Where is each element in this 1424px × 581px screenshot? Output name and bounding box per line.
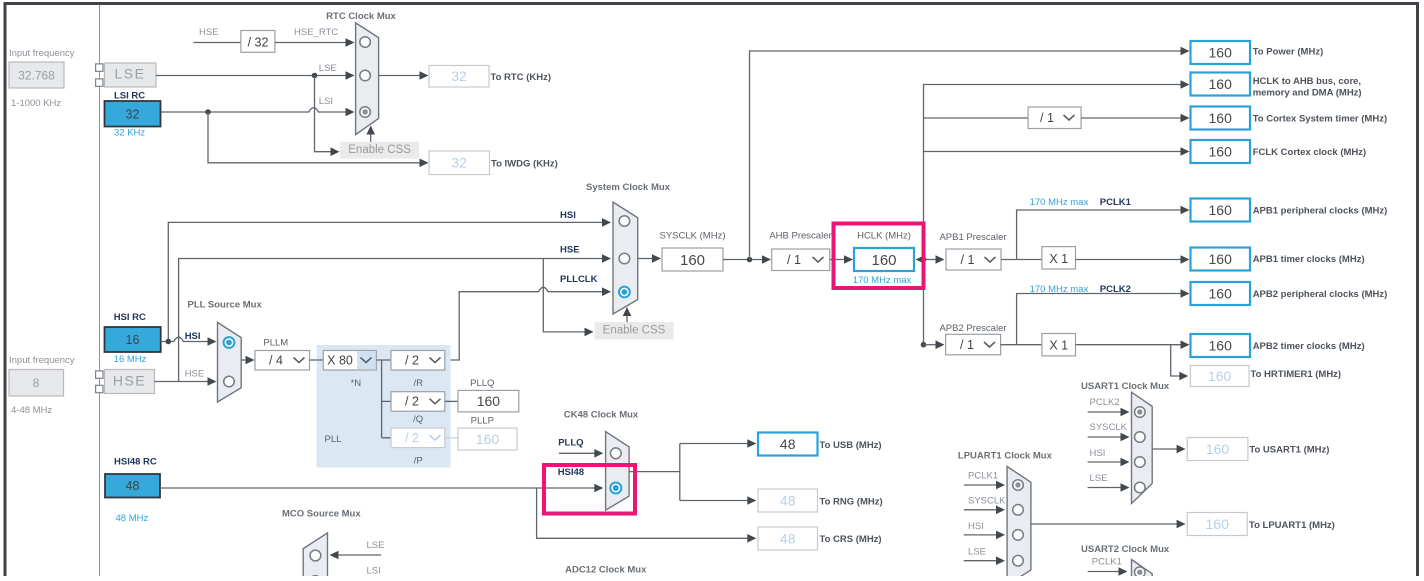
wire HCLK bus to HCLK box (left arrow): [916, 255, 925, 264]
svg-text:PLLM: PLLM: [263, 338, 288, 349]
value box To HRTIMER1 160: [1190, 366, 1249, 387]
radio HSI (unselected): [619, 216, 630, 227]
svg-text:HSI: HSI: [185, 331, 201, 342]
wire LPUART1 mux output: [1031, 520, 1186, 529]
wire HCLK bus to Cortex prescaler: [924, 117, 1029, 119]
radio MCO LSE (unselected): [310, 550, 321, 561]
wire APB2 prescaler to X1: [1001, 344, 1042, 346]
svg-text:X 1: X 1: [1049, 339, 1068, 353]
value box To Power 160: [1191, 41, 1251, 64]
input frequency box 32.768: [9, 62, 64, 88]
svg-text:To CRS (MHz): To CRS (MHz): [820, 534, 882, 545]
wire SYSCLK to To Power: [750, 47, 1190, 260]
oscillator LSE: [105, 63, 157, 87]
svg-text:SYSCLK: SYSCLK: [968, 496, 1006, 507]
svg-text:PCLK2: PCLK2: [1090, 397, 1120, 408]
Enable CSS (sys): [595, 322, 674, 339]
svg-text:48: 48: [780, 530, 796, 546]
value box To CRS 48 (inactive): [758, 527, 818, 550]
svg-text:APB1 timer clocks (MHz): APB1 timer clocks (MHz): [1253, 254, 1365, 265]
wire LSI branch to IWDG: [208, 112, 429, 167]
svg-text:48 MHz: 48 MHz: [116, 513, 149, 524]
svg-text:LSE: LSE: [1090, 473, 1108, 484]
svg-text:160: 160: [1209, 337, 1233, 353]
value box FCLK 160: [1191, 140, 1251, 163]
svg-text:To Cortex System timer (MHz): To Cortex System timer (MHz): [1253, 114, 1387, 125]
wire LSI to RTC mux with hop: [161, 108, 355, 117]
node SYSCLK junction: [747, 257, 753, 263]
svg-text:160: 160: [1209, 202, 1233, 218]
radio HSI (unselected): [1135, 457, 1146, 468]
svg-text:HSI RC: HSI RC: [114, 312, 146, 323]
svg-text:LSE: LSE: [115, 66, 146, 82]
radio HSE_RTC (unselected): [360, 37, 371, 48]
mux CK48 Clock Mux: [606, 432, 630, 511]
svg-text:/ 2: / 2: [405, 354, 419, 368]
wire HCLK bus to APB1 prescaler: [924, 255, 945, 264]
wire LSE branch to Enable CSS (rtc): [315, 76, 340, 157]
svg-text:To RNG (MHz): To RNG (MHz): [820, 497, 883, 508]
wire CK48 output tee to USB and RNG: [629, 439, 756, 505]
svg-text:PLLP: PLLP: [471, 416, 494, 427]
oscillator LSI RC 32: [105, 101, 161, 127]
svg-text:160: 160: [1208, 368, 1232, 384]
svg-text:160: 160: [476, 431, 500, 447]
oscillator HSI RC 16: [105, 327, 161, 352]
radio LSE (unselected): [1135, 482, 1146, 493]
wire PLLCLK from /R to sys mux with hop: [445, 287, 611, 360]
svg-text:HCLK to AHB bus, core,: HCLK to AHB bus, core,: [1253, 76, 1361, 87]
svg-text:X 80: X 80: [327, 354, 353, 368]
wire /P to PLLP box (inactive): [445, 437, 458, 439]
left rail line: [99, 5, 101, 576]
svg-text:memory and DMA (MHz): memory and DMA (MHz): [1253, 88, 1362, 99]
svg-text:Enable CSS: Enable CSS: [603, 324, 666, 336]
clip squares LSE: [96, 64, 103, 86]
mux System Clock Mux: [613, 202, 638, 314]
svg-text:PLLCLK: PLLCLK: [560, 274, 598, 285]
svg-text:160: 160: [1209, 143, 1233, 159]
wire HCLK bus vertical: [924, 80, 1190, 345]
svg-text:32: 32: [126, 107, 140, 121]
wire HSI to PLL mux with hop: [161, 337, 217, 346]
svg-text:/ 1: / 1: [960, 338, 974, 352]
mux MCO Source Mux (partial): [303, 533, 327, 578]
svg-text:PCLK1: PCLK1: [968, 471, 998, 482]
wire sys mux output to SYSCLK box: [638, 254, 661, 263]
svg-text:X 1: X 1: [1049, 252, 1068, 266]
svg-text:170 MHz max: 170 MHz max: [1030, 197, 1089, 208]
wire PCLK1 to USART2 mux: [1088, 567, 1128, 576]
svg-text:Input frequency: Input frequency: [9, 48, 75, 59]
radio HSI (selected blue): [224, 337, 235, 348]
svg-text:160: 160: [477, 393, 501, 409]
value box To USB 48: [758, 433, 818, 456]
svg-text:HSE: HSE: [185, 369, 205, 380]
node APB2 feed junction: [921, 342, 927, 348]
svg-text:160: 160: [1206, 441, 1230, 457]
wire SYSCLK to USART1 mux: [1088, 433, 1130, 442]
svg-text:System Clock Mux: System Clock Mux: [586, 182, 671, 193]
wire SYSCLK to AHB prescaler: [723, 255, 771, 264]
svg-text:/ 4: / 4: [269, 354, 283, 368]
wire X1 to APB1 timer box: [1076, 255, 1190, 264]
radio SYSCLK (unselected): [1135, 432, 1146, 443]
node LSI junction: [205, 109, 211, 115]
value box To USART1 160 (inactive): [1187, 438, 1248, 461]
wire HCLK bus to APB2 prescaler: [924, 340, 945, 349]
clip squares HSE: [96, 371, 103, 393]
input frequency box 8: [9, 370, 64, 397]
svg-text:LSE: LSE: [367, 540, 385, 551]
mux USART1 Clock Mux: [1132, 392, 1153, 503]
svg-text:APB2 Prescaler: APB2 Prescaler: [939, 323, 1006, 334]
radio PCLK2 (selected gray): [1135, 407, 1146, 418]
mux PLL Source Mux: [218, 322, 242, 402]
value box APB2 peripheral 160: [1191, 282, 1251, 305]
svg-text:To USART1 (MHz): To USART1 (MHz): [1249, 445, 1329, 456]
svg-text:LPUART1 Clock Mux: LPUART1 Clock Mux: [958, 451, 1053, 462]
svg-text:PCLK1: PCLK1: [1100, 197, 1132, 208]
svg-text:160: 160: [1209, 251, 1233, 267]
svg-text:HSE: HSE: [199, 27, 219, 38]
svg-text:AHB Prescaler: AHB Prescaler: [769, 231, 831, 242]
wire HSI to LPUART1 mux: [964, 531, 1005, 540]
svg-text:PCLK1: PCLK1: [1092, 557, 1122, 568]
wire SYSCLK to LPUART1 mux: [964, 506, 1005, 515]
wire AHB prescaler to HCLK: [830, 255, 853, 264]
svg-text:To LPUART1 (MHz): To LPUART1 (MHz): [1249, 520, 1335, 531]
node LSE junction: [312, 73, 318, 79]
svg-text:HSI48 RC: HSI48 RC: [114, 457, 157, 468]
label HCLK to AHB bus: [1253, 76, 1362, 99]
wire LSE to MCO mux (left arrow): [330, 551, 382, 560]
svg-text:USART1 Clock Mux: USART1 Clock Mux: [1081, 381, 1170, 392]
svg-text:32 KHz: 32 KHz: [114, 128, 145, 139]
svg-text:To IWDG (KHz): To IWDG (KHz): [491, 159, 558, 170]
wire HCLK bus to FCLK box: [924, 147, 1190, 156]
svg-text:To RTC (KHz): To RTC (KHz): [491, 72, 552, 83]
wire HSI to USART1 mux: [1088, 458, 1130, 467]
svg-text:160: 160: [1209, 110, 1233, 126]
svg-text:/ 1: / 1: [787, 253, 801, 267]
svg-text:LSI: LSI: [367, 566, 381, 577]
radio HSI48 (selected blue): [610, 483, 621, 494]
value box APB1 peripheral 160: [1191, 199, 1251, 222]
svg-text:LSI: LSI: [319, 96, 333, 107]
svg-text:To HRTIMER1 (MHz): To HRTIMER1 (MHz): [1251, 369, 1342, 380]
divider /32: [241, 31, 275, 53]
svg-text:160: 160: [1209, 285, 1233, 301]
value box HCLK to AHB 160: [1191, 73, 1251, 96]
svg-text:16 MHz: 16 MHz: [114, 354, 147, 365]
value box SYSCLK 160: [662, 248, 723, 271]
wire PLLM to *N: [310, 359, 324, 361]
wire HSE riser to sys mux: [179, 254, 611, 381]
svg-text:Enable CSS: Enable CSS: [348, 144, 411, 156]
svg-text:32.768: 32.768: [18, 69, 55, 83]
svg-text:/ 1: / 1: [1040, 111, 1054, 125]
radio PCLK1 usart2 (selected gray, clipped): [1135, 567, 1146, 578]
oscillator HSI48 RC 48: [105, 474, 160, 498]
PLL panel: [317, 345, 451, 468]
svg-text:SYSCLK: SYSCLK: [1090, 422, 1128, 433]
wire HSE to /32 divider: [194, 42, 241, 44]
wire *N output branches: [376, 360, 391, 438]
svg-text:48: 48: [126, 479, 140, 493]
svg-text:16: 16: [126, 333, 140, 347]
dropdown APB2 /1: [946, 334, 1001, 355]
svg-text:/P: /P: [414, 456, 423, 467]
radio LSE (unselected): [360, 70, 371, 81]
mux USART2 Clock Mux (partial): [1132, 560, 1153, 579]
dropdown /Q /2: [391, 392, 445, 412]
svg-text:LSI RC: LSI RC: [114, 91, 145, 102]
wire HSE branch to Enable CSS (sys): [543, 259, 593, 337]
wire APB1 prescaler to X1: [1001, 259, 1042, 261]
svg-text:32: 32: [451, 68, 467, 84]
svg-text:4-48 MHz: 4-48 MHz: [11, 405, 52, 416]
svg-text:APB2 timer clocks (MHz): APB2 timer clocks (MHz): [1253, 341, 1365, 352]
wire X1 to APB2 timer box: [1076, 340, 1190, 349]
svg-text:170 MHz max: 170 MHz max: [853, 275, 912, 286]
dropdown *N X80: [323, 351, 376, 371]
value box To IWDG: [429, 151, 490, 175]
svg-text:PCLK2: PCLK2: [1100, 284, 1131, 295]
dropdown APB1 /1: [946, 249, 1001, 270]
value box PLLQ 160: [458, 390, 519, 412]
wire USART1 mux output: [1152, 445, 1185, 454]
wire PLLQ to CK48 mux: [559, 449, 603, 458]
svg-text:To USB (MHz): To USB (MHz): [820, 440, 882, 451]
svg-text:8: 8: [33, 376, 40, 390]
wire Enable CSS to sys mux (up arrow): [623, 307, 632, 322]
svg-text:HSE: HSE: [560, 245, 580, 256]
svg-text:HSI: HSI: [560, 210, 576, 221]
highlight frame HSI48 selection: [544, 465, 635, 514]
radio MCO LSI (unselected, clipped): [310, 576, 321, 581]
svg-text:RTC Clock Mux: RTC Clock Mux: [326, 11, 396, 22]
radio PCLK1 (selected gray): [1013, 480, 1024, 491]
svg-text:Input frequency: Input frequency: [9, 355, 75, 366]
svg-text:SYSCLK (MHz): SYSCLK (MHz): [660, 231, 726, 242]
wire HSE to PLL mux: [155, 377, 217, 386]
dropdown /P /2 (inactive): [391, 428, 445, 448]
svg-text:FCLK Cortex clock (MHz): FCLK Cortex clock (MHz): [1253, 147, 1366, 158]
radio HSI (unselected): [1013, 530, 1024, 541]
svg-text:APB1 peripheral clocks (MHz): APB1 peripheral clocks (MHz): [1253, 206, 1388, 217]
highlight frame HCLK: [834, 224, 924, 289]
dropdown AHB /1: [772, 249, 830, 271]
svg-text:170 MHz max: 170 MHz max: [1030, 284, 1089, 295]
wire PLL mux output to PLLM: [241, 356, 254, 365]
svg-text:/ 1: / 1: [961, 253, 975, 267]
wire HSI48 to CK48 mux: [160, 484, 603, 493]
radio LSI (selected gray): [360, 107, 371, 118]
dropdown /R /2: [391, 351, 445, 371]
mux LPUART1 Clock Mux (partial): [1007, 467, 1031, 581]
svg-text:LSE: LSE: [319, 63, 337, 74]
wire PCLK1 to LPUART1 mux: [964, 481, 1005, 490]
svg-text:CK48 Clock Mux: CK48 Clock Mux: [564, 410, 639, 421]
svg-text:APB1 Prescaler: APB1 Prescaler: [939, 232, 1006, 243]
svg-text:/R: /R: [413, 378, 423, 389]
svg-text:/Q: /Q: [413, 414, 423, 425]
wire RTC mux output to To RTC box: [379, 71, 429, 80]
svg-text:HCLK (MHz): HCLK (MHz): [857, 231, 911, 242]
wire Enable CSS to RTC mux (up arrow): [366, 126, 375, 142]
wire HSI48 branch to To CRS: [537, 488, 757, 543]
svg-text:APB2 peripheral clocks (MHz): APB2 peripheral clocks (MHz): [1253, 289, 1388, 300]
wire APB2 timer branch to HRTIMER1: [1171, 345, 1189, 381]
svg-text:PLL: PLL: [325, 434, 342, 445]
wire PCLK2 riser to APB2 peripheral box: [1017, 289, 1190, 345]
svg-text:LSE: LSE: [968, 547, 986, 558]
radio HSE (unselected): [619, 253, 630, 264]
svg-text:ADC12 Clock Mux: ADC12 Clock Mux: [565, 565, 647, 576]
value box To LPUART1 160 (inactive): [1187, 513, 1247, 536]
wire LSE to RTC mux: [156, 71, 355, 80]
svg-text:/ 2: / 2: [405, 395, 419, 409]
multiplier X1 (APB1): [1042, 247, 1076, 269]
Enable CSS (rtc): [340, 142, 419, 159]
multiplier X1 (APB2): [1042, 334, 1076, 356]
svg-text:MCO Source Mux: MCO Source Mux: [282, 509, 361, 520]
value box HCLK 160: [854, 248, 914, 271]
wire HSI riser to sys mux: [168, 218, 611, 341]
radio PLLCLK (selected blue): [619, 287, 630, 298]
svg-text:PLLQ: PLLQ: [470, 378, 494, 389]
radio HSE (unselected): [224, 376, 235, 387]
svg-text:*N: *N: [351, 378, 362, 389]
svg-text:HSE: HSE: [113, 373, 146, 389]
svg-text:32: 32: [451, 155, 467, 171]
wire LSE to USART1 mux: [1088, 483, 1130, 492]
mux RTC Clock Mux: [356, 23, 379, 135]
svg-text:USART2 Clock Mux: USART2 Clock Mux: [1081, 544, 1170, 555]
wire HSE_RTC to RTC mux: [275, 38, 355, 47]
value box To RTC: [429, 66, 489, 88]
svg-text:1-1000 KHz: 1-1000 KHz: [11, 98, 61, 109]
node HSI junction: [166, 339, 172, 345]
svg-text:160: 160: [1206, 516, 1230, 532]
svg-text:48: 48: [780, 492, 796, 508]
wire Cortex prescaler to To Cortex box: [1081, 114, 1189, 123]
radio LSE (unselected): [1013, 555, 1024, 566]
svg-text:160: 160: [871, 252, 896, 269]
svg-text:/ 2: / 2: [405, 431, 419, 445]
value box APB2 timer 160: [1191, 334, 1251, 357]
svg-text:160: 160: [1209, 44, 1233, 60]
value box To Cortex 160: [1191, 107, 1251, 130]
oscillator HSE: [105, 370, 155, 394]
svg-text:48: 48: [780, 436, 796, 452]
wire PCLK2 to USART1 mux: [1088, 408, 1130, 417]
radio SYSCLK (unselected): [1013, 505, 1024, 516]
svg-text:PLLQ: PLLQ: [558, 438, 583, 449]
svg-text:PLL Source Mux: PLL Source Mux: [188, 300, 263, 311]
svg-text:/ 32: / 32: [248, 36, 269, 50]
svg-text:HSI: HSI: [968, 521, 984, 532]
value box To RNG 48 (inactive): [758, 489, 818, 512]
svg-text:160: 160: [1209, 76, 1233, 92]
svg-text:HSE_RTC: HSE_RTC: [294, 27, 338, 38]
node HCLK junction: [921, 257, 927, 263]
radio PLLQ (unselected): [610, 448, 621, 459]
dropdown Cortex /1: [1028, 107, 1081, 129]
value box PLLP 160 (inactive): [458, 428, 517, 450]
value box APB1 timer 160: [1191, 248, 1251, 271]
svg-text:HSI48: HSI48: [558, 467, 584, 478]
svg-text:HSI: HSI: [1090, 448, 1106, 459]
svg-text:160: 160: [680, 252, 705, 269]
wire LSE to LPUART1 mux: [964, 556, 1005, 565]
dropdown PLLM /4: [255, 351, 310, 371]
wire /Q to PLLQ box: [445, 400, 458, 402]
svg-text:To Power (MHz): To Power (MHz): [1253, 47, 1324, 58]
wire PCLK1 riser to APB1 peripheral box: [1017, 206, 1190, 260]
